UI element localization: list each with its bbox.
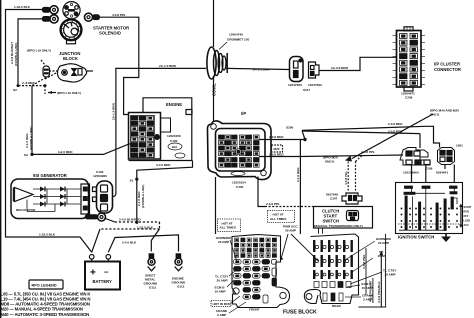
svg-text:C208: C208 [405, 96, 413, 100]
svg-text:2-0.8 RED: 2-0.8 RED [269, 152, 284, 156]
generator diodes column 1 [40, 187, 45, 207]
label CRANK 3 AMP right [362, 294, 374, 302]
connector C207 [342, 193, 362, 204]
svg-text:1901: 1901 [456, 144, 463, 148]
label 12020156 C100 engine [167, 134, 181, 143]
connector 8294641 [438, 148, 455, 165]
label (RPO M40 AND M20 ONLY) [430, 109, 459, 117]
svg-text:M40 — AUTOMATIC 3-SPEED TRANSM: M40 — AUTOMATIC 3-SPEED TRANSMISSION [1, 312, 90, 317]
engine ground symbol [175, 254, 183, 271]
label TO ECM right [378, 250, 385, 258]
connector 12047663 [290, 57, 304, 82]
svg-text:30 AMP: 30 AMP [285, 229, 296, 233]
rear fuse callout lines [345, 241, 382, 297]
ignition switch position arrow [459, 204, 463, 229]
wire label 2-1.0 RED (FUSIBLE LINK) rotated [25, 127, 33, 150]
svg-text:–: – [104, 268, 109, 277]
generator regulator triangle [13, 188, 36, 213]
svg-text:2-0.8 PPL: 2-0.8 PPL [266, 202, 280, 206]
svg-text:G112: G112 [177, 285, 185, 289]
junction block right stub [87, 70, 93, 72]
wire 2-4.0 BLK/RED dashed to engine ground [92, 219, 160, 253]
vertical contact bars [405, 196, 407, 230]
svg-text:9SI GENERATOR: 9SI GENERATOR [33, 173, 67, 178]
wire 3-4.0 RED engine to fusible link junction [137, 161, 193, 223]
svg-text:2-4.0 BLK/RED: 2-4.0 BLK/RED [119, 218, 141, 222]
svg-text:LOCK: LOCK [464, 220, 471, 223]
svg-text:BATTERY: BATTERY [93, 279, 113, 284]
generator internal wires rows [27, 189, 81, 212]
generator diodes column 2 [60, 187, 65, 207]
wire label 2-1.0 RED (FUSIBLE LINK) rotated mid [137, 185, 145, 208]
wire 4-0.8 PPL bulkhead to ignition [259, 155, 403, 157]
node S206 [303, 138, 306, 141]
hot at all times wavy box left [218, 219, 241, 232]
label HORN/DM 20 AMP right [376, 237, 391, 245]
generator 9SI box [11, 179, 89, 219]
wire 2-0.8 PPL dashed to clutch switch [258, 177, 314, 207]
label PWR ACC 30 AMP [283, 225, 298, 233]
svg-text:RUN: RUN [464, 211, 469, 214]
svg-text:GROMMET 150: GROMMET 150 [227, 38, 249, 42]
svg-text:10 AMP: 10 AMP [215, 290, 226, 294]
svg-text:S3: S3 [24, 153, 28, 157]
svg-text:C100: C100 [170, 139, 178, 143]
svg-text:(RPO L19 ONLY): (RPO L19 ONLY) [57, 91, 81, 95]
clutch start switch box [314, 207, 373, 229]
svg-text:(RPO L19 ONLY): (RPO L19 ONLY) [27, 49, 51, 53]
RPO legend box [29, 280, 63, 289]
label T.L CTSY 20 AMP left [215, 275, 229, 283]
label CRANK 3 AMP left [216, 309, 228, 317]
engine connector C100 body [129, 110, 193, 160]
bulkhead connector C100 body [207, 121, 271, 180]
svg-text:2-0.8 RED: 2-0.8 RED [388, 122, 403, 126]
IP cluster connector body [397, 27, 422, 91]
svg-text:2-0.8 RED: 2-0.8 RED [269, 135, 284, 139]
generator output ring terminal [86, 213, 106, 221]
connector 12047662 [309, 62, 320, 78]
svg-text:2A-1.0 BRN: 2A-1.0 BRN [159, 64, 177, 68]
junction block body [57, 64, 86, 82]
svg-text:I/P CLUSTER: I/P CLUSTER [434, 62, 460, 67]
fusible link capsule [41, 60, 50, 77]
ignition switch internals [398, 186, 459, 231]
grommet 150 [207, 42, 227, 79]
front fuse label callouts [227, 240, 246, 313]
RPO legend text [1, 291, 92, 316]
wires connectors to ignition switch [412, 165, 455, 184]
svg-text:ALL TIMES: ALL TIMES [270, 217, 286, 221]
svg-text:2-.8 RED: 2-.8 RED [22, 81, 35, 85]
callout diagonal to RPO M40 note [352, 114, 433, 159]
svg-text:2A-1.0 BRN: 2A-1.0 BRN [253, 67, 271, 71]
wire 3-0.8 PNK fuse to ECM arrow [379, 251, 383, 308]
wire 2-0.8 RED bulkhead to S206 [259, 139, 305, 141]
label 12047663 12047662 S117 [288, 83, 322, 92]
clutch switch dashed wires [348, 156, 362, 193]
label HOT IN RUN dashed [211, 301, 231, 307]
label 12020154 C100 bulkhead [232, 181, 246, 190]
svg-text:1-32.0 BLK: 1-32.0 BLK [14, 5, 31, 9]
svg-text:20 AMP: 20 AMP [385, 273, 396, 277]
svg-text:3 AMP: 3 AMP [217, 313, 226, 317]
svg-text:ONLY): ONLY) [325, 160, 334, 164]
node junction 45,85.6 [44, 84, 47, 87]
wire 2A-1.0 BRN cowl to S117 [226, 68, 289, 69]
svg-text:IGNITION SWITCH: IGNITION SWITCH [398, 235, 434, 240]
svg-text:OFF: OFF [464, 215, 469, 218]
connector C100 generator capsule [93, 181, 113, 213]
IP cluster connector pins [400, 34, 418, 86]
fuse block rear outline [304, 234, 358, 304]
svg-text:ENGINE: ENGINE [166, 102, 182, 107]
fuse block front outline [232, 235, 290, 308]
label 12064749 GROMMET 150 [227, 33, 249, 42]
svg-text:G111: G111 [149, 286, 157, 290]
wire 4-0.8 PPL/WHT vertical [372, 278, 374, 303]
wire 3-2.0 RED from S3 to engine connector [32, 144, 131, 154]
starter motor solenoid bottom circle [61, 19, 82, 43]
sheet metal ground symbol [148, 254, 156, 271]
svg-text:S2: S2 [13, 88, 17, 92]
svg-text:HOT IN RUN: HOT IN RUN [213, 302, 232, 306]
svg-text:1-32.0 BLK: 1-32.0 BLK [39, 233, 56, 237]
svg-text:3-2.0 RED: 3-2.0 RED [58, 150, 73, 154]
svg-text:COWL: COWL [212, 83, 217, 96]
svg-text:(FUSIBLE LINK): (FUSIBLE LINK) [141, 185, 145, 208]
label ENGINE GROUND G112 [172, 277, 187, 289]
svg-text:1-32.0 BLK: 1-32.0 BLK [137, 226, 154, 230]
svg-text:S1: S1 [130, 179, 134, 183]
wire 4-0.8 PPL from solenoid to engine [99, 17, 139, 114]
svg-text:(MANUAL TRANSMISSION ONLY): (MANUAL TRANSMISSION ONLY) [314, 224, 363, 228]
svg-text:2A-0.8 BRN: 2A-0.8 BRN [331, 66, 349, 70]
fuse block front fuse grid [234, 260, 277, 304]
svg-text:M20: M20 [274, 147, 280, 151]
svg-text:2-4.0 BLK: 2-4.0 BLK [122, 241, 137, 245]
svg-text:SWITCH: SWITCH [323, 219, 340, 224]
svg-text:4-0.8 PPL/WHT: 4-0.8 PPL/WHT [369, 280, 373, 302]
svg-text:BLOCK: BLOCK [63, 56, 78, 61]
svg-text:CONNECTOR: CONNECTOR [434, 67, 461, 72]
svg-text:2-1.0 RED: 2-1.0 RED [296, 167, 300, 182]
svg-text:12064966: 12064966 [93, 174, 107, 178]
ignition switch box [396, 183, 463, 234]
label SHEET METAL GROUND G111 [144, 274, 159, 290]
svg-text:12020154: 12020154 [232, 181, 246, 185]
bulkhead connector C100 pin grid [219, 135, 260, 176]
svg-text:3-0.8 PNK/BLK: 3-0.8 PNK/BLK [377, 281, 381, 303]
svg-text:FUSE BLOCK: FUSE BLOCK [283, 310, 317, 316]
engine connector pin grid [131, 116, 186, 159]
svg-text:S117: S117 [303, 88, 310, 92]
svg-text:START: START [464, 206, 472, 209]
svg-text:BLK: BLK [172, 145, 177, 149]
label (RPO M20 ONLY) left of clutch [323, 156, 338, 164]
svg-text:(FUSIBLE LINK): (FUSIBLE LINK) [14, 43, 18, 66]
ring terminal solenoid GRD 1 [43, 6, 59, 14]
junction block label [59, 51, 80, 61]
svg-text:8294641: 8294641 [436, 171, 448, 175]
label 8917648 C207 [326, 193, 338, 201]
svg-text:2A-1.0 BRN: 2A-1.0 BRN [112, 102, 116, 120]
dashed links junction block [19, 71, 59, 94]
svg-text:3-0.8 PNK: 3-0.8 PNK [362, 254, 366, 269]
fuse block rear terminal rows [313, 240, 353, 301]
contact dot grid [401, 208, 458, 228]
svg-text:12047662: 12047662 [308, 83, 322, 87]
starter motor solenoid top circle [63, 2, 80, 19]
svg-text:ALL TIMES: ALL TIMES [220, 226, 236, 230]
svg-text:SOLENOID: SOLENOID [99, 31, 121, 36]
label ECM B 10 AMP left [215, 286, 226, 294]
wire label 0.8 BLK/WHT (FUSIBLE LINK) rotated [10, 42, 18, 66]
label (RPO L19 ONLY) arrow [48, 91, 81, 95]
wire 2A-1.0 BRN riser x115.9 [113, 68, 207, 196]
scan border left edge [0, 0, 2, 318]
svg-text:FRONT: FRONT [249, 308, 260, 312]
ignition switch ground arrow [441, 234, 451, 243]
svg-text:12020156: 12020156 [167, 134, 181, 138]
svg-text:4-0.8 YEL: 4-0.8 YEL [344, 171, 348, 185]
dashed box M20 [272, 145, 283, 152]
hot at all times wavy box upper [268, 211, 295, 223]
wire rear fuse right riser to ignition [359, 234, 386, 307]
ring terminal solenoid S-terminal [85, 13, 100, 21]
svg-text:C207: C207 [330, 197, 338, 201]
fuse block front small pin rows [235, 238, 277, 257]
label HOT AT ALL TIMES left [220, 221, 236, 229]
svg-text:ONLY): ONLY) [430, 113, 439, 117]
ENGINE outline box [129, 98, 192, 161]
svg-text:12047663: 12047663 [288, 83, 302, 87]
pwr acc callout V lines [281, 234, 319, 261]
wire 2A-0.8 BRN to IP cluster [319, 57, 396, 70]
node S3 [30, 153, 33, 156]
battery [85, 254, 120, 289]
svg-text:(FUSIBLE LINK): (FUSIBLE LINK) [29, 127, 33, 150]
IP cluster connector pin ticks [393, 36, 426, 85]
label HOT AT ALL TIMES upper [270, 213, 286, 221]
svg-text:12064749: 12064749 [229, 33, 243, 37]
node S1 [135, 178, 138, 181]
svg-text:C100: C100 [236, 185, 244, 189]
svg-text:20 AMP: 20 AMP [217, 279, 228, 283]
label T.L CTSY 20 AMP right [383, 269, 397, 277]
svg-text:20 AMP: 20 AMP [218, 240, 229, 244]
svg-text:3-4.0 RED: 3-4.0 RED [156, 163, 171, 167]
wire 0.8 BLK/WHT fusible link vertical [18, 19, 42, 86]
wire fuse rear to ignition x366 [365, 248, 367, 295]
wires clutch switch to fuse block [319, 228, 323, 234]
generator pin strip [81, 184, 90, 214]
svg-text:+: + [90, 268, 96, 279]
splice taper S206 to red pair [302, 126, 426, 139]
svg-text:REAR: REAR [332, 304, 342, 308]
label 12064971 C208 [401, 92, 415, 100]
svg-text:S206: S206 [286, 126, 294, 130]
wire 2-1.0 RED fusible link vertical x32 [31, 86, 33, 155]
label STARTER MOTOR SOLENOID [93, 26, 129, 36]
top bus bars [405, 186, 413, 188]
svg-text:I/P: I/P [241, 111, 246, 116]
wire 2-1.0 RED vertical x300 to fuse block [299, 140, 301, 235]
svg-text:20 AMP: 20 AMP [378, 241, 389, 245]
wire 2-0.8 RED pair to connectors [420, 126, 440, 148]
wire 1-32.0 BLK ground loop left [6, 10, 92, 253]
svg-text:RPO LEGEND: RPO LEGEND [32, 284, 57, 288]
label I/P CLUSTER CONNECTOR [434, 62, 461, 73]
clutch bypass arrowhead [345, 156, 352, 162]
svg-text:4-0.8 PPL: 4-0.8 PPL [112, 13, 126, 17]
node fusible link to charge wire [135, 221, 138, 224]
ring terminal solenoid GRD 2 [43, 15, 59, 23]
connector cluster C209 [400, 148, 430, 166]
node S2 [17, 84, 20, 87]
cowl panel dashed line [214, 0, 216, 234]
battery to ground dashed wire 1-32.0 BLK [108, 235, 178, 252]
label C100 12064966 generator connector [93, 170, 107, 178]
label HORN/DM 20 AMP left [216, 236, 231, 244]
labels START RUN OFF LOCK ACC [464, 206, 472, 227]
svg-text:ACC: ACC [464, 224, 469, 227]
label ECM B 10 AMP right [362, 282, 373, 290]
label C209 12010996A 8294641 [403, 144, 463, 175]
